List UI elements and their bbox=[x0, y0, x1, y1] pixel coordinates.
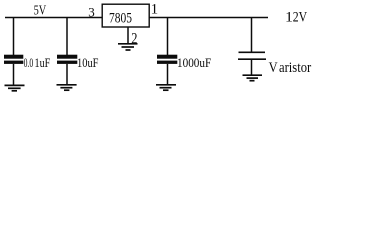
capacitor C3 1000uF bbox=[157, 18, 177, 85]
capacitor C2 10uF bbox=[57, 18, 77, 85]
svg-text:2V: 2V bbox=[293, 9, 308, 25]
svg-text:1: 1 bbox=[151, 1, 159, 17]
ground under C2 bbox=[57, 85, 77, 90]
pin 2 stem from U1 bbox=[127, 28, 129, 44]
svg-text:1: 1 bbox=[285, 9, 293, 25]
ground under C3 bbox=[156, 85, 176, 90]
ground under C1 bbox=[5, 85, 25, 90]
svg-text:1uF: 1uF bbox=[35, 56, 51, 70]
ground under U1 bbox=[118, 44, 138, 50]
svg-text:0.0: 0.0 bbox=[24, 56, 34, 70]
svg-text:2: 2 bbox=[131, 30, 137, 47]
svg-text:3: 3 bbox=[88, 5, 95, 20]
wire output segment right (12V rail) bbox=[150, 17, 269, 19]
capacitor C1 0.01uF bbox=[4, 18, 23, 86]
varistor RV1 bbox=[238, 18, 266, 75]
svg-text:10uF: 10uF bbox=[77, 56, 99, 70]
svg-text:aristor: aristor bbox=[279, 60, 311, 76]
svg-text:V: V bbox=[269, 60, 278, 76]
ground under varistor bbox=[243, 75, 263, 81]
svg-text:1000uF: 1000uF bbox=[177, 56, 211, 70]
regulator U1 7805 bbox=[102, 4, 149, 27]
wire input segment left (5V rail) bbox=[5, 17, 102, 19]
svg-text:7805: 7805 bbox=[109, 11, 132, 27]
svg-text:5V: 5V bbox=[34, 4, 47, 19]
